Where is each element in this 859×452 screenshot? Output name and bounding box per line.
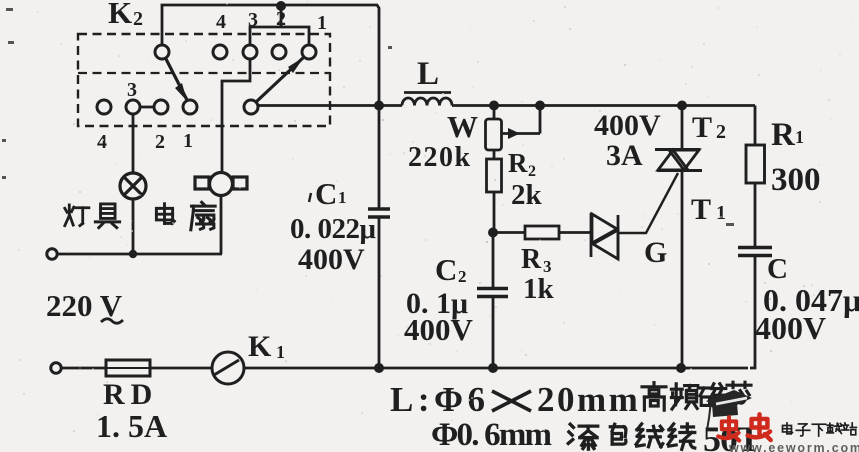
scan specks xyxy=(2,8,734,226)
svg-text:220k: 220k xyxy=(408,142,472,173)
junction dot wiper to bus xyxy=(535,101,545,111)
svg-text:20mm: 20mm xyxy=(537,380,640,419)
svg-text:W: W xyxy=(447,109,478,144)
K2 bottom contact P xyxy=(244,100,258,114)
K2 left wiper arm xyxy=(165,57,187,100)
switch K2 dashed enclosure xyxy=(78,34,330,126)
capacitor C1 xyxy=(378,106,381,210)
svg-text:1k: 1k xyxy=(523,273,555,305)
svg-text:RD: RD xyxy=(103,378,158,411)
K2 bottom pin labels 4 2 1 and 3 xyxy=(97,79,193,153)
svg-text:C: C xyxy=(435,252,457,287)
svg-text:K: K xyxy=(248,330,272,363)
wire node to R3 xyxy=(493,231,525,234)
svg-text:400V: 400V xyxy=(404,312,474,347)
svg-text:C: C xyxy=(315,176,337,211)
svg-text:2: 2 xyxy=(716,121,726,143)
svg-text:R: R xyxy=(508,148,528,178)
svg-text:C: C xyxy=(767,253,788,285)
svg-text:2: 2 xyxy=(528,163,536,180)
triac T xyxy=(681,106,684,150)
junction dot triac top xyxy=(677,101,687,111)
svg-text:2: 2 xyxy=(458,267,467,286)
diac trigger diode xyxy=(591,213,618,259)
svg-text:2: 2 xyxy=(133,8,143,30)
svg-text:4: 4 xyxy=(216,11,226,33)
switch K2 inner dashed divider xyxy=(78,72,330,74)
svg-text:G: G xyxy=(644,236,667,269)
K2 top contact 4 xyxy=(213,45,227,59)
K2 bottom contact 4 xyxy=(97,100,111,114)
K2 bottom contact 3 xyxy=(126,100,140,114)
svg-text:3A: 3A xyxy=(606,139,643,172)
wire fan to lower-left feed xyxy=(220,196,223,254)
K2 top contact P xyxy=(155,45,169,59)
svg-text:220 V: 220 V xyxy=(46,288,123,323)
wire input to fuse xyxy=(62,367,106,370)
watermark text 电子下载站 xyxy=(783,423,793,434)
svg-text:400V: 400V xyxy=(594,109,661,142)
fuse RD xyxy=(106,360,150,376)
lamp symbol (circle with X) 灯具 xyxy=(120,173,146,199)
svg-text:300: 300 xyxy=(771,162,821,198)
potentiometer W body xyxy=(493,106,496,120)
junction dot C1 bottom xyxy=(374,363,384,373)
K2 right wiper arm xyxy=(256,57,304,102)
wire top bus xyxy=(258,104,402,107)
svg-text:Φ0. 6mm: Φ0. 6mm xyxy=(431,417,552,452)
svg-text:L: L xyxy=(417,56,439,92)
svg-text:1: 1 xyxy=(795,127,804,147)
svg-text:0. 022μ: 0. 022μ xyxy=(290,213,377,245)
wire link bottom contacts 3 and 2 xyxy=(140,106,154,109)
potentiometer W wiper xyxy=(501,132,540,135)
svg-text:1: 1 xyxy=(276,342,285,362)
watermark graduation cap xyxy=(706,390,752,411)
svg-text:R: R xyxy=(521,244,542,275)
wire R3 to diac xyxy=(559,231,591,234)
note line1 hanzi 高频磁芯 xyxy=(642,383,666,411)
fan motor symbol 电扇 xyxy=(195,173,247,196)
capacitor C snubber xyxy=(738,246,772,249)
K2 top contact 2 xyxy=(272,45,286,59)
K2 bottom contact 1 xyxy=(183,100,197,114)
wire bus after inductor xyxy=(452,104,755,107)
svg-text:R: R xyxy=(771,117,796,153)
svg-text:4: 4 xyxy=(97,131,107,153)
svg-text:400V: 400V xyxy=(298,243,365,276)
junction dot C2 bottom xyxy=(488,363,498,373)
label 电扇 (fan) xyxy=(156,204,174,224)
svg-text:2k: 2k xyxy=(511,179,543,211)
resistor R1 xyxy=(754,106,757,146)
K2 bottom contact 2 xyxy=(154,100,168,114)
wire K2 top contact 3 down to fan xyxy=(222,59,250,171)
resistor R2 xyxy=(493,150,496,159)
switch K1 xyxy=(212,352,244,384)
junction dot W top xyxy=(489,101,499,111)
svg-text:T: T xyxy=(692,111,712,144)
svg-text:L:Φ6: L:Φ6 xyxy=(390,380,490,419)
K2 top contact 1 xyxy=(302,45,316,59)
svg-text:1: 1 xyxy=(716,202,726,224)
svg-text:1: 1 xyxy=(338,188,347,207)
junction dot lamp feed xyxy=(129,250,137,258)
label 灯具 (lamp) xyxy=(65,205,89,226)
wire K2 pivot to top bus xyxy=(162,5,379,105)
K2 top contact 3 xyxy=(243,45,257,59)
svg-text:1: 1 xyxy=(183,130,193,152)
inductor L coil xyxy=(402,98,415,105)
wire diac to gate xyxy=(618,173,678,233)
junction dot T1 bottom xyxy=(676,363,686,373)
wire bottom bus xyxy=(244,367,748,370)
AC input terminal lower xyxy=(51,363,61,373)
svg-text:1: 1 xyxy=(317,12,327,34)
K2 top pin labels 4 3 2 1 xyxy=(216,8,327,34)
wire tap from link to top bus xyxy=(280,5,283,27)
wire link top contacts 3 and 1 xyxy=(250,27,309,45)
wire lamp to lower-left feed xyxy=(132,199,135,254)
junction dot on top wire xyxy=(276,1,286,11)
svg-text:T: T xyxy=(691,193,711,226)
svg-text:www.eeworm.com: www.eeworm.com xyxy=(728,441,859,452)
AC input terminal upper xyxy=(47,249,57,259)
wire K2 bottom contact 3 down to lamp xyxy=(132,114,135,173)
watermark red bug 虫虫 logo xyxy=(718,417,739,440)
note line2 hanzi 漆包线绕 xyxy=(568,424,597,449)
capacitor C2 xyxy=(492,233,495,289)
junction dot C1 top xyxy=(374,101,384,111)
wire fuse to switch K1 xyxy=(150,367,212,370)
svg-text:K: K xyxy=(108,0,132,30)
svg-text:1. 5A: 1. 5A xyxy=(96,408,167,444)
svg-text:2: 2 xyxy=(155,131,165,153)
junction dot R2/C2/R3 node xyxy=(488,228,498,238)
wire upper input feed xyxy=(58,253,222,256)
svg-text:3: 3 xyxy=(127,79,137,101)
resistor R3 xyxy=(525,226,559,239)
svg-text:400V: 400V xyxy=(755,310,826,346)
